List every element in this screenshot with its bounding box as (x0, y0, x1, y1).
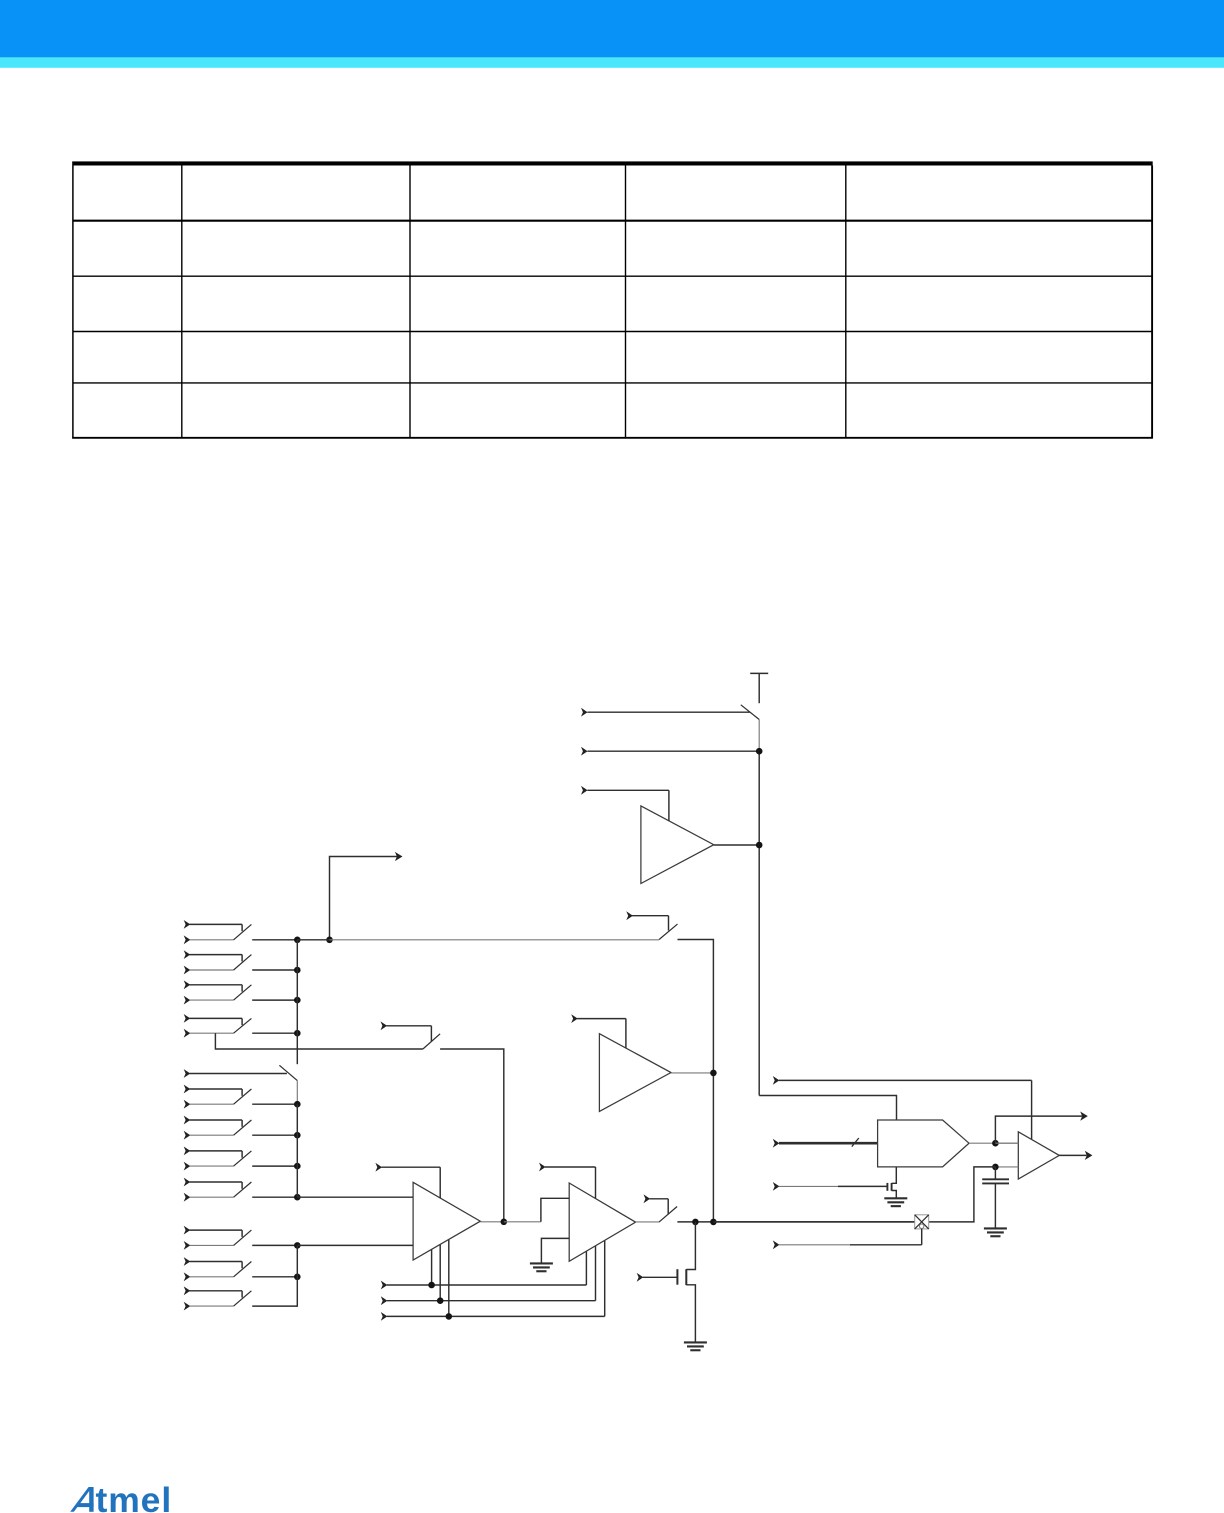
analog input pin pair ADC14/ADC15 with mux switch (184, 1178, 298, 1202)
wire S4 control input (626, 911, 668, 930)
table (72, 161, 1153, 438)
node comparator net junction (710, 1219, 717, 1226)
wire gain select line 1 (381, 1251, 587, 1289)
node AREF junction 2 (756, 842, 763, 849)
wire U4 output (636, 1221, 660, 1223)
op-amp U4 differential gain amplifier stage 2 (569, 1183, 635, 1261)
wire positive input bus A vertical (296, 940, 298, 1064)
node U5 output junction (992, 1140, 999, 1147)
wire AVCC input line (581, 708, 750, 717)
wire bandgap reference net (713, 1167, 995, 1222)
node gain tap junction 2 (437, 1297, 444, 1304)
wire U6 output arrow (1059, 1151, 1092, 1160)
analog input pin pair ADC0/ADC1 with mux switch (184, 920, 298, 944)
transistor Q2 ADC enable NMOS (887, 1167, 896, 1198)
svg-text:tmel: tmel (96, 1480, 173, 1513)
wire Q1 gate input (637, 1273, 678, 1282)
analog input pin pair ADC4/ADC5 with mux switch (184, 980, 298, 1004)
wire S3 control input (381, 1021, 432, 1041)
node bus A junctions (294, 937, 301, 1037)
wire single-ended tap from ADC7 pin (215, 1033, 423, 1049)
wire bus B upper segment (296, 1081, 298, 1105)
wire U2 output (671, 1072, 713, 1074)
node sample cap junction (992, 1164, 999, 1171)
op-amp U3 differential gain amplifier stage 1 (413, 1182, 480, 1260)
analog input pin pair ADC10/ADC11 with mux switch (184, 1116, 298, 1140)
power VCC tee symbol (750, 673, 768, 703)
switch S5 gain path select switch (659, 1207, 677, 1223)
switch S2 bus series mux switch (279, 1065, 297, 1080)
node bus B junctions (294, 1101, 301, 1201)
switch S4 sample-hold switch (659, 924, 677, 939)
ground C1 (984, 1228, 1007, 1236)
switch S1 VCC to AREF net (741, 705, 759, 720)
analog input pin pair negative mux 1 (184, 1226, 298, 1250)
ground U4 negative input (530, 1263, 553, 1271)
wire S2 control input (184, 1069, 287, 1078)
wire U3 gain select taps (432, 1240, 449, 1317)
wire U3 positive input from bus B (297, 1196, 413, 1198)
analog input pin pair ADC12/ADC13 with mux switch (184, 1147, 298, 1171)
header blue band (0, 0, 1224, 57)
wire mux output bus to sample switch (297, 939, 659, 941)
wire gain select line 2 (381, 1246, 596, 1305)
ground Q1 source (684, 1342, 707, 1350)
wire U6 negative input (995, 1166, 1018, 1168)
wire U5 output (969, 1142, 1018, 1144)
op-amp U2 DAC buffer (599, 1034, 671, 1112)
node A tap junction (326, 937, 333, 944)
capacitor C1 sample hold (982, 1167, 1009, 1229)
wire AREF corner to ADC reference input (759, 1096, 896, 1121)
node bus C junctions (294, 1242, 301, 1249)
wire Q2 gate input (773, 1182, 888, 1191)
adc sar converter block U5 (878, 1120, 969, 1167)
wire U3 negative input from bus C (297, 1244, 413, 1246)
wire S5 control input (644, 1194, 669, 1214)
header cyan strip (0, 57, 1224, 67)
wire ADC data bus input with slash (773, 1138, 878, 1148)
node gain tap junction 3 (446, 1313, 453, 1320)
wire S5 to comparator input net (677, 1221, 914, 1223)
transistor Q1 discharge NMOS (677, 1222, 695, 1343)
wire U1 control input (581, 786, 669, 821)
wire comparator enable input (773, 1076, 1032, 1140)
ground Q2 source (884, 1198, 907, 1206)
wire gain select line 3 (381, 1240, 605, 1321)
op-amp U1 internal reference buffer (641, 806, 714, 884)
node discharge junction (692, 1219, 699, 1226)
wire bus B vertical to amplifier positive input (296, 1104, 298, 1197)
analog input pin pair negative mux 3 (184, 1286, 298, 1310)
Atmel logo (70, 1480, 172, 1513)
node gain tap junction 1 (428, 1282, 435, 1289)
wire S4 to comparator input net (678, 940, 714, 1222)
wire U2 control input (571, 1014, 626, 1048)
wire U4 positive input from U3 output (504, 1198, 569, 1222)
wire AREF input line (581, 747, 759, 756)
node comparator input junction (710, 1070, 717, 1077)
node AREF junction 1 (756, 748, 763, 755)
comparator U6 (1018, 1132, 1059, 1179)
wire conversion result arrow (995, 1112, 1087, 1144)
wire S3 to gain amp output node (440, 1049, 504, 1222)
switch S3 single-ended bypass switch (423, 1034, 440, 1049)
wire U1 output to AREF net (714, 844, 759, 846)
analog input pin pair negative mux 2 (184, 1257, 298, 1281)
wire U4 control input (539, 1163, 596, 1199)
analog input pin pair ADC6/ADC7 with mux switch (184, 1014, 298, 1038)
wire to ADC multiplexer output tap arrow (node A) (330, 852, 403, 940)
analog input pin pair ADC2/ADC3 with mux switch (184, 950, 298, 974)
wire U3 output (480, 1221, 504, 1223)
wire S6 control input (773, 1229, 922, 1249)
wire AREF vertical net (758, 720, 760, 1096)
analog input pin pair ADC8/ADC9 with mux switch (184, 1085, 298, 1109)
wire U4 negative input to ground (541, 1238, 569, 1263)
wire U6 positive input (995, 1142, 1018, 1144)
wire bus C vertical to amplifier negative input (296, 1245, 298, 1306)
switch S6 bandgap select bowtie (915, 1215, 929, 1229)
wire U3 control input (375, 1163, 440, 1199)
node U3 output junction (501, 1219, 508, 1226)
